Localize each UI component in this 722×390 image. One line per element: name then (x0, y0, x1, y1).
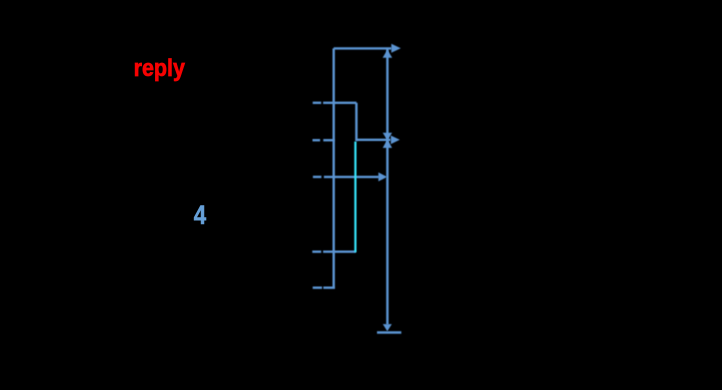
wire mid vertical blue x356 (355, 103, 357, 141)
wire tick y288 left dash (313, 287, 322, 289)
wire tick y140 left dash (313, 139, 321, 141)
wire arrow line y177 left dash (313, 176, 322, 178)
arrowhead right at y140 (391, 136, 400, 145)
wire tick y140 main (323, 139, 335, 141)
wire y140 right segment (357, 139, 391, 141)
svg-text:reply: reply (134, 55, 186, 82)
arrowhead right at y177 (378, 172, 387, 181)
wire top horizontal y48 (334, 47, 392, 49)
wire dimension vertical x387 (386, 48, 388, 324)
wire tick y288 main (323, 287, 335, 289)
wire tick y252 main (323, 250, 356, 252)
wire tick y252 left dash (312, 250, 321, 252)
wire bottom terminator bar y332 (377, 331, 401, 333)
arrowhead up below top line (383, 50, 393, 58)
arrowhead up below y140 (383, 139, 392, 148)
arrowhead down at bottom y331 (383, 324, 392, 331)
wire tick y103 left dash (313, 102, 322, 104)
arrowhead down above y140 (383, 133, 392, 141)
wire cyan vertical x355 (354, 142, 356, 253)
wire arrow line y177 main (324, 176, 379, 178)
wire tick y103 main (323, 102, 356, 104)
svg-text:4: 4 (194, 200, 207, 230)
wire left vertical x334 (333, 48, 335, 288)
arrowhead right at top y48 (391, 44, 401, 53)
